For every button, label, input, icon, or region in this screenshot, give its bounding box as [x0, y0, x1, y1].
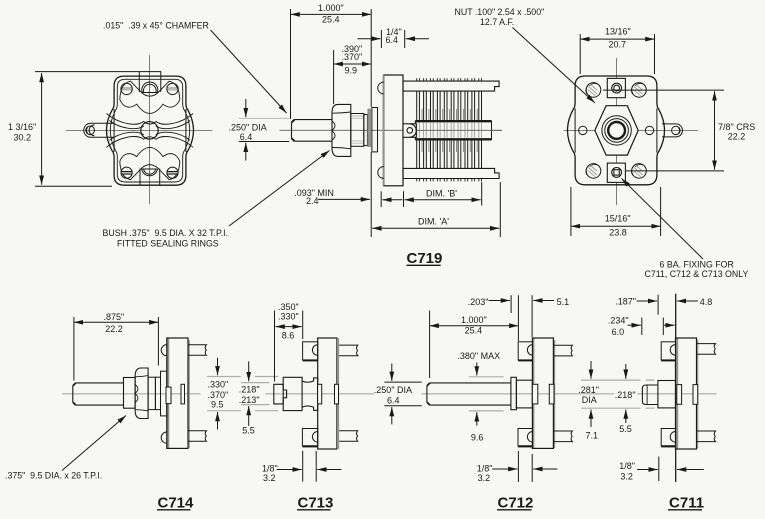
- threaded bush C719: [351, 114, 364, 147]
- svg-text:5.5: 5.5: [619, 424, 632, 434]
- bottom rail C719: [403, 168, 499, 178]
- dim text .203: [468, 297, 489, 307]
- svg-text:.380" MAX: .380" MAX: [457, 351, 500, 361]
- svg-text:25.4: 25.4: [465, 325, 483, 335]
- rear body outline: [568, 76, 665, 185]
- svg-text:C711, C712 & C713 ONLY: C711, C712 & C713 ONLY: [645, 269, 749, 279]
- lower moustache curve outer: [107, 137, 194, 148]
- dim line DIM A: [372, 227, 499, 229]
- plate C712 gray edge: [532, 338, 534, 448]
- dim text .875 / 22.2: [104, 312, 125, 334]
- wafer stack C719: [417, 91, 482, 168]
- slot rect C714: [181, 384, 185, 404]
- arrow down .250 C712: [391, 364, 393, 381]
- mounting tab left with hole: [84, 123, 115, 137]
- extension line 1/8 left C713: [302, 451, 304, 482]
- label C713: [297, 494, 333, 511]
- gray ext lines .380: [469, 377, 504, 411]
- wafer ticks below rail: [417, 179, 482, 182]
- spacer top C712: [518, 342, 533, 361]
- svg-text:.370": .370": [342, 52, 363, 62]
- svg-text:.875": .875": [104, 312, 125, 322]
- dim text 7/8 CRS / 22.2: [718, 122, 755, 142]
- dim text 13/16 / 20.7: [605, 27, 631, 50]
- top screw block rear: [607, 78, 625, 97]
- dim text .350/.330/8.6: [278, 302, 299, 340]
- spacer dome bottom C714: [161, 432, 167, 443]
- svg-text:.330": .330": [208, 380, 229, 390]
- arrow up C713 slot: [248, 406, 250, 426]
- bush nut C714: [135, 368, 148, 419]
- svg-text:7.1: 7.1: [586, 430, 599, 440]
- spindle body C713: [283, 377, 302, 410]
- label C711: [668, 494, 704, 511]
- arrow up C714 dia: [217, 412, 219, 430]
- leader text BUSH: [103, 228, 229, 249]
- arrow down C714 dia: [217, 358, 219, 375]
- terminal top C713: [339, 345, 358, 356]
- centerline vertical rear view: [616, 58, 618, 205]
- svg-text:.375" 9.5 DIA. x 26 T.P.I.: .375" 9.5 DIA. x 26 T.P.I.: [5, 471, 102, 481]
- extension line plate front: [380, 30, 382, 48]
- dim line DIM B: [405, 199, 481, 201]
- arrow 5.1: [533, 300, 554, 302]
- terminal bottom C714: [188, 431, 207, 442]
- svg-text:.250" DIA: .250" DIA: [374, 385, 412, 395]
- switch body outline front: [107, 76, 194, 185]
- arrow 1/8 right C713: [317, 469, 341, 471]
- svg-text:15/16": 15/16": [605, 214, 631, 224]
- svg-text:1.000": 1.000": [318, 3, 344, 13]
- svg-text:3.2: 3.2: [620, 472, 633, 482]
- extension line 1/8 right C713: [315, 451, 317, 482]
- svg-text:22.2: 22.2: [728, 132, 746, 142]
- top left rivet circle: [121, 83, 132, 94]
- extension line 13/16 left: [579, 34, 581, 74]
- shaft C712: [427, 383, 511, 405]
- svg-text:DIM. 'A': DIM. 'A': [418, 217, 449, 227]
- dim text 1.000 / 25.4 C712: [461, 315, 487, 336]
- plate C711 gray edge: [676, 338, 679, 449]
- top rail C719: [403, 81, 499, 91]
- leader text 6 BA: [645, 260, 749, 279]
- arrow 1/8 left C711: [637, 469, 658, 471]
- svg-text:4.8: 4.8: [700, 297, 713, 307]
- extension line top (body height): [35, 71, 139, 73]
- arrow .250 bottom: [245, 143, 247, 161]
- svg-text:8.6: 8.6: [282, 330, 295, 340]
- plate C714 gray edge: [167, 338, 169, 448]
- svg-text:23.8: 23.8: [609, 227, 627, 237]
- svg-text:.203": .203": [468, 297, 489, 307]
- extension line 13/16 right: [654, 34, 656, 74]
- neck and bead C713: [302, 378, 318, 410]
- bottom screw bracket front: [140, 169, 160, 186]
- spacer bottom C711: [661, 429, 675, 447]
- dim line 13/16: [580, 38, 654, 40]
- sealing ring C719 (gray): [367, 109, 371, 147]
- arrow down C713 slot: [248, 361, 250, 381]
- arrow up .218 C711: [625, 410, 627, 424]
- extension line .350 right (upper): [302, 311, 304, 340]
- terminal top C711: [697, 344, 716, 355]
- bottom centre screw head front: [142, 169, 158, 176]
- dim text 4.8: [700, 297, 713, 307]
- dim line .350: [276, 326, 302, 328]
- centerline through rotor: [415, 129, 502, 131]
- hatched hole bottom-left: [586, 164, 601, 179]
- dim text 15/16 / 23.8: [605, 214, 631, 238]
- extension line .187 right C711 (long): [675, 294, 677, 341]
- gray ext lines .281: [581, 380, 654, 408]
- leader line .375: [62, 416, 126, 471]
- collar C714: [124, 378, 136, 409]
- common centerline bottom row (gray): [62, 393, 717, 395]
- centerline C719: [280, 129, 503, 131]
- leader line chamfer: [211, 30, 287, 113]
- arrow .250 top: [245, 99, 247, 117]
- extension line shaft left C712: [429, 311, 431, 379]
- spacer bottom C713: [302, 429, 317, 447]
- svg-text:3.2: 3.2: [263, 473, 276, 483]
- sleeve C712: [516, 380, 532, 408]
- dim line gap (plate to stack): [382, 199, 402, 201]
- dim text .234 / 6.0: [608, 316, 629, 337]
- dim text 1/4 6.4: [386, 27, 402, 45]
- extension line .234 right: [662, 318, 664, 336]
- extension line collar left C712: [510, 295, 512, 313]
- extension line 15/16 left: [570, 187, 572, 236]
- spindle stub C713 (slotted): [274, 384, 287, 404]
- sealing rings C714: [148, 371, 167, 416]
- dim text 1/8 3.2 C711: [619, 461, 635, 482]
- dim line 1 3/16 vertical: [41, 73, 43, 185]
- centerline horizontal front view: [66, 129, 213, 131]
- spindle stub C711: [642, 385, 658, 405]
- arrow .187: [637, 300, 657, 302]
- svg-text:9.9: 9.9: [345, 66, 358, 76]
- dim text .187: [615, 296, 636, 306]
- svg-text:9.6: 9.6: [471, 432, 484, 442]
- extension line 1/8 right C711 (long bottom): [675, 450, 677, 483]
- spacer dome bottom C719: [378, 167, 384, 179]
- plate C713 gray edge: [337, 338, 339, 449]
- svg-text:.330": .330": [278, 311, 299, 321]
- svg-text:C714: C714: [158, 494, 195, 511]
- upper moustache curve inner: [110, 121, 191, 129]
- dim line 1.000 C712: [430, 325, 519, 327]
- top screw bracket front: [139, 72, 161, 92]
- arrow 1/8 right C712: [533, 468, 557, 470]
- terminal bottom C711: [697, 431, 716, 442]
- svg-text:6.4: 6.4: [387, 395, 400, 405]
- bottom left screw circle: [121, 167, 132, 178]
- plate C711: [676, 338, 697, 449]
- svg-text:C713: C713: [298, 494, 334, 511]
- arrow 1/8 right C711: [677, 469, 704, 471]
- dim line .875: [74, 321, 158, 323]
- gray ext lines C713 slot: [241, 383, 270, 405]
- centerline vertical front view: [149, 55, 151, 204]
- dim text .250 DIA / 6.4: [229, 123, 267, 142]
- arrow 1/4 left: [358, 38, 381, 40]
- extension line 15/16 right: [660, 187, 662, 236]
- extension line plate rear: [404, 30, 406, 48]
- dim text 5.1: [557, 297, 570, 307]
- terminal bottom C712: [553, 431, 572, 442]
- extension line shaft top (gray): [239, 117, 289, 119]
- inner contour front body: [110, 79, 189, 182]
- spacer top C713: [303, 342, 318, 361]
- dim text .281 DIA / 7.1: [578, 385, 599, 440]
- extension line bottom (body height): [35, 185, 112, 187]
- nut circles rear: [602, 116, 631, 145]
- svg-text:C711: C711: [669, 494, 704, 511]
- extension line plate front C712: [531, 295, 533, 337]
- hub rect C712: [532, 384, 537, 404]
- hub rect C711: [677, 385, 682, 405]
- leader text .015 chamfer: [103, 21, 209, 31]
- gray ext lines C714 bush dia: [207, 377, 278, 411]
- arrow up .380 / 9.6: [476, 412, 478, 425]
- leader line NUT to rear view: [513, 28, 595, 103]
- lower wing contour: [120, 147, 180, 179]
- extension line .187 left C711: [657, 295, 659, 315]
- rotor bar C719: [415, 121, 491, 139]
- svg-text:13/16": 13/16": [605, 27, 631, 37]
- svg-text:1/8": 1/8": [262, 463, 278, 473]
- extension line 1/8 left C711: [658, 457, 660, 481]
- bottom screw block rear: [607, 163, 625, 182]
- svg-text:25.4: 25.4: [322, 14, 340, 24]
- arrow down .281: [590, 361, 592, 379]
- slot rect C712: [549, 384, 554, 404]
- svg-text:7/8" CRS: 7/8" CRS: [718, 122, 755, 132]
- spacer bottom C712: [518, 429, 533, 447]
- spacer top C711: [661, 342, 675, 361]
- svg-text:.370": .370": [208, 390, 229, 400]
- terminal top C712: [553, 345, 572, 356]
- svg-text:9.5: 9.5: [211, 400, 224, 410]
- svg-text:5.5: 5.5: [242, 426, 255, 436]
- extension line gap right: [403, 191, 405, 207]
- dim text .218 / 5.5 C711: [615, 390, 636, 434]
- slot rect C713: [335, 384, 339, 404]
- extension line collar right C712 (long): [517, 295, 519, 341]
- dim line .390: [334, 63, 372, 65]
- svg-text:C719: C719: [407, 250, 443, 267]
- bottom right screw circle: [167, 167, 178, 178]
- extension line shaft end: [290, 9, 292, 119]
- svg-text:.281": .281": [578, 385, 599, 395]
- dim line 1.000: [291, 13, 372, 15]
- svg-text:C712: C712: [498, 494, 534, 511]
- bush nut C719: [332, 104, 351, 156]
- svg-text:12.7 A.F.: 12.7 A.F.: [480, 17, 514, 27]
- lower moustache curve inner: [110, 132, 191, 140]
- hatched hole top-right: [631, 83, 646, 98]
- label C719: [407, 250, 443, 267]
- shaft C719: [292, 120, 333, 142]
- arrow down .380: [476, 363, 478, 376]
- terminal top C714: [188, 345, 207, 356]
- arrow up .281: [590, 410, 592, 428]
- extension line 1/8 left C712: [517, 451, 519, 482]
- dim text .390/.370/9.9: [342, 44, 363, 76]
- hub C719: [403, 124, 416, 138]
- svg-text:1/8": 1/8": [619, 461, 635, 471]
- svg-text:6.4: 6.4: [240, 132, 253, 142]
- arrow .234 right: [664, 324, 675, 326]
- dim text 1/8 3.2 C712: [477, 463, 493, 483]
- svg-text:FITTED SEALING RINGS: FITTED SEALING RINGS: [117, 239, 219, 249]
- hub rect C713: [318, 384, 322, 404]
- hatched hole bottom-right: [631, 164, 646, 179]
- dim text 1.000 / 25.4: [318, 3, 344, 24]
- dim line 7/8 CRS: [714, 91, 716, 169]
- shaft C714: [73, 383, 124, 405]
- plate C713: [318, 338, 337, 449]
- upper moustache curve outer: [107, 114, 194, 125]
- svg-text:NUT .100" 2.54 x .500": NUT .100" 2.54 x .500": [455, 7, 545, 17]
- svg-text:1 3/16": 1 3/16": [8, 122, 36, 132]
- plate C712: [532, 338, 553, 448]
- arrow 4.8: [677, 300, 698, 302]
- arrow .234 left: [628, 324, 641, 326]
- body wall lines through bulges front: [114, 109, 186, 152]
- mounting tab right rear: [662, 124, 683, 137]
- svg-text:20.7: 20.7: [609, 39, 627, 49]
- side hole right rear: [645, 126, 653, 134]
- spacer dome top C719: [378, 82, 384, 94]
- dim text .218/.213/5.5: [239, 385, 260, 436]
- svg-text:3.2: 3.2: [478, 473, 491, 483]
- extension line 7/8 top (through screw): [603, 89, 724, 91]
- extension line gap left: [380, 191, 382, 207]
- extension line DIM A right: [499, 182, 501, 237]
- sealing washer C719: [372, 108, 378, 152]
- centerline horizontal rear view: [564, 129, 699, 131]
- leader line BUSH: [229, 151, 330, 227]
- dim text .093 MIN / 2.4: [294, 188, 334, 206]
- top left terminal rivet (gray slot): [121, 87, 133, 91]
- plate front gray edge: [383, 75, 385, 186]
- svg-text:.218": .218": [239, 385, 260, 395]
- extension line shaft bottom: [239, 141, 289, 143]
- plate C714 right shadow: [188, 340, 190, 448]
- arrow .203: [489, 300, 511, 302]
- arrow .093: [318, 198, 370, 200]
- dim text .380 MAX: [457, 351, 500, 361]
- hub rect C714: [166, 387, 171, 404]
- arrow 1/4 right: [406, 38, 429, 40]
- dim text DIM. 'B': [426, 189, 457, 199]
- ext lines .250 C712: [384, 382, 421, 406]
- terminal bottom C713: [339, 431, 358, 442]
- extension line .234 left: [641, 318, 643, 336]
- arrow down .218 C711: [625, 364, 627, 379]
- svg-text:.015" .39 x 45° CHAMFER: .015" .39 x 45° CHAMFER: [103, 21, 209, 31]
- arrow 1/8 left C713: [277, 469, 302, 471]
- extension line bush face (bottom segment): [370, 152, 372, 237]
- upper wing contour: [120, 81, 180, 113]
- svg-text:5.1: 5.1: [557, 297, 570, 307]
- label C712: [497, 494, 533, 511]
- extension line .875 right: [157, 317, 159, 366]
- svg-text:.234": .234": [608, 316, 629, 326]
- leader line 6 BA: [622, 179, 704, 260]
- leader text .375 26 TPI: [5, 471, 102, 481]
- dim text .250 DIA / 6.4 C712: [374, 385, 412, 405]
- svg-text:1/8": 1/8": [477, 463, 493, 473]
- dim text 1 3/16 / 30.2: [8, 122, 36, 142]
- hex nut rear: [595, 106, 638, 155]
- svg-text:1.000": 1.000": [461, 315, 487, 325]
- spindle body C711: [658, 381, 676, 408]
- arrow 1/8 left C712: [492, 468, 517, 470]
- dim text 1/8 3.2 C713: [262, 463, 278, 483]
- bottom left screw slot gray: [121, 171, 133, 175]
- rotor interior wafer traces: [417, 123, 482, 138]
- dim line 15/16: [571, 225, 661, 227]
- extension line DIM B right: [481, 182, 483, 205]
- wafer ticks above rail: [417, 78, 482, 81]
- spacer dome top C714: [161, 345, 167, 356]
- extension line .875 left: [73, 317, 75, 381]
- svg-text:BUSH .375" 9.5 DIA. X 32 T.P.: BUSH .375" 9.5 DIA. X 32 T.P.I.: [103, 228, 229, 238]
- plate C714: [167, 338, 188, 448]
- svg-text:.213": .213": [239, 395, 260, 405]
- svg-text:30.2: 30.2: [14, 132, 32, 142]
- svg-text:6.0: 6.0: [612, 327, 625, 337]
- centre shaft hole front: [141, 122, 158, 139]
- dim text DIM. 'A': [418, 217, 449, 227]
- leader text NUT: [455, 7, 545, 27]
- top centre screw head front: [142, 82, 158, 92]
- svg-text:22.2: 22.2: [105, 324, 123, 334]
- body wall lines through bulges rear: [575, 109, 657, 153]
- svg-text:6.4: 6.4: [386, 35, 399, 45]
- plate C711 right shadow: [697, 340, 699, 449]
- extension line bush face (top segment): [370, 9, 372, 107]
- svg-text:.218": .218": [615, 390, 636, 400]
- svg-text:DIM. 'B': DIM. 'B': [426, 189, 457, 199]
- dim text 9.6: [471, 432, 484, 442]
- extension line 7/8 bottom: [626, 170, 724, 172]
- dim text .330/.370/9.5: [208, 380, 229, 410]
- slot rect C711: [693, 385, 698, 405]
- plate C712 right shadow: [554, 340, 556, 448]
- arrow up .250 C712: [391, 407, 393, 424]
- side hole left rear: [579, 126, 587, 134]
- top right terminal rivet (gray slot): [167, 87, 179, 91]
- svg-text:DIA: DIA: [582, 395, 597, 405]
- extension line 1/8 right C712: [531, 454, 533, 482]
- extension line nut left: [333, 50, 335, 104]
- label C714: [157, 494, 194, 511]
- wafer mid contacts gray: [422, 109, 477, 152]
- collar C712: [511, 377, 517, 409]
- front plate C719: [384, 75, 403, 186]
- extension line .350 left: [274, 311, 276, 382]
- svg-text:.187": .187": [615, 296, 636, 306]
- top right rivet circle: [167, 83, 178, 94]
- bottom right screw slot gray: [167, 171, 179, 175]
- hatched hole top-left: [586, 83, 601, 98]
- washer C719: [364, 115, 368, 146]
- svg-text:2.4: 2.4: [306, 196, 319, 206]
